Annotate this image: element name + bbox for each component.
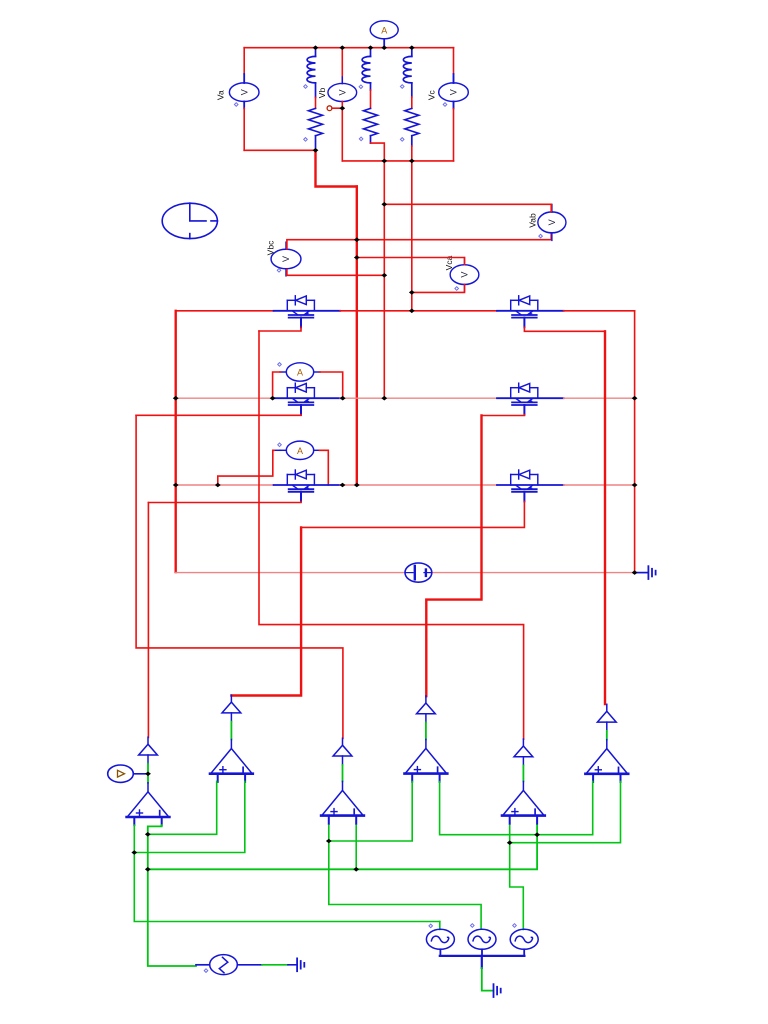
wire Vb bottom: [341, 102, 343, 161]
polarity mark L1: [304, 85, 308, 89]
ammeter A2: [280, 363, 320, 381]
wire A3 left drop: [274, 449, 281, 451]
junction dots row3: [173, 483, 179, 488]
wire gate c6 (Q2 gate to T6) thick: [604, 331, 606, 704]
polarity mark Va: [234, 103, 238, 107]
junction dots V2: [381, 202, 387, 207]
inductor L2: [362, 48, 371, 90]
wire L1-R1: [315, 97, 317, 108]
ground G1: [648, 566, 655, 579]
wire carrier net: op1 right jog: [148, 825, 196, 966]
wire T6-op6: [606, 731, 608, 740]
wire T2-op2: [230, 722, 232, 740]
svg-text:A: A: [297, 368, 303, 378]
resistor R3: [405, 108, 419, 135]
svg-text:V: V: [460, 272, 470, 278]
wire row3 right: [564, 484, 635, 486]
polarity mark A3: [278, 443, 282, 447]
wire sine1 drop: [439, 922, 441, 930]
junction dot Vb tap: [339, 106, 345, 111]
wire node tap: [332, 107, 342, 109]
wire R1 bottom: [315, 136, 317, 151]
junction dot b1 bottom: [313, 148, 319, 153]
wire row2 left feeder: [176, 397, 273, 399]
transistor Q6 (row3 right IGBT): [497, 470, 564, 502]
ground G3: [297, 958, 304, 971]
wire sine bottom bus: [440, 949, 525, 968]
source Idc (DC link battery source): [405, 563, 432, 582]
inductor L3: [403, 48, 412, 97]
polarity mark A2: [278, 363, 282, 367]
buffer T1: [139, 737, 158, 764]
wire gate c3 (Q3 gate to T3): [136, 415, 343, 738]
wire Q3 gate jog: [136, 414, 301, 417]
wire V3 vertical: [411, 161, 413, 311]
wire neutral bus y161: [342, 160, 453, 162]
svg-text:Vab: Vab: [528, 213, 538, 228]
wire A2 right drop: [320, 372, 343, 398]
wire Va top: [243, 48, 245, 74]
wire phase-c feeder (b1 bottom to V1): [316, 150, 357, 186]
svg-text:Vb: Vb: [317, 88, 327, 99]
polarity mark R1: [304, 138, 308, 142]
junction dots V1: [354, 237, 360, 242]
buffer T4: [417, 696, 436, 723]
wire Q4 gate jog: [482, 414, 525, 417]
polarity mark L2: [359, 85, 363, 89]
junction dot row1 phase: [409, 309, 415, 314]
voltmeter Vca: [450, 258, 479, 292]
op-amp U5: [502, 781, 545, 823]
wire Vtri left lead: [196, 964, 210, 966]
polarity mark Vtri: [204, 969, 208, 973]
wire T5-op5: [522, 766, 524, 782]
source Vsin1: [426, 929, 454, 949]
wire gate c1 (Q5 gate to T1): [147, 503, 149, 738]
svg-text:V: V: [239, 89, 249, 95]
voltmeter Va: [229, 76, 259, 108]
wire Q5 gate jog: [148, 502, 301, 503]
voltmeter Vb: [328, 77, 357, 108]
junction dot probe: [145, 772, 151, 777]
wire V4 vertical (DC- to ground): [634, 311, 636, 573]
transistor Q3 (row2 left IGBT): [274, 383, 341, 415]
wire sine1 net: op1 left input down and across: [134, 825, 440, 921]
wire ammeter stub: [383, 39, 385, 48]
wire gate c4 (Q4 gate to T4) thick: [426, 416, 481, 697]
source Vsin3: [510, 929, 538, 949]
wire Vab top line: [384, 204, 551, 211]
transistor Q4 (row2 right IGBT): [497, 383, 564, 415]
wire gate c5 (Q1 gate to T5): [259, 331, 524, 739]
wire DC+ rail x176: [174, 311, 176, 572]
polarity mark Vc: [443, 103, 447, 107]
junction dots green nets: [131, 850, 137, 855]
junction dots top bus: [313, 45, 319, 50]
svg-text:Va: Va: [216, 90, 226, 100]
wire top DC bus: [244, 47, 453, 49]
wire R3 bottom: [411, 136, 413, 146]
wire Vca bottom line: [412, 285, 465, 293]
wire row2 right: [564, 397, 635, 399]
svg-text:V: V: [547, 219, 557, 225]
wire row2 mid: [340, 397, 497, 399]
wire T3-op3: [342, 765, 344, 781]
voltmeter Vab: [538, 204, 566, 240]
resistor R2: [364, 108, 378, 135]
wire sine1 net: branch to op2 right input: [134, 781, 245, 852]
op-amp U4: [405, 739, 448, 781]
wire V1 thick vertical: [356, 187, 358, 486]
wire row1 right to V4: [564, 310, 635, 312]
inductor L1: [307, 48, 316, 98]
wire gate c2 (Q6 gate to T2) thick: [231, 527, 301, 695]
svg-text:Vbc: Vbc: [266, 240, 276, 255]
wire Q2 gate jog: [524, 327, 605, 331]
svg-text:A: A: [297, 446, 303, 456]
wire Vbc bottom line: [287, 270, 384, 276]
wire ground lead: [635, 572, 648, 574]
ammeter A1 (top DC ammeter): [370, 21, 398, 39]
wire A3 right drop: [320, 450, 329, 485]
wire to ground G3: [262, 964, 288, 966]
wire R2 bottom jog: [370, 136, 372, 143]
polarity mark Vsin1: [429, 924, 433, 928]
wire L3-R3: [411, 97, 413, 108]
svg-text:A: A: [381, 25, 387, 35]
voltmeter Vbc: [271, 242, 301, 276]
wire Va bottom: [243, 102, 245, 109]
node circle (phase b tap): [327, 106, 332, 111]
wire L2-R2: [370, 90, 372, 108]
op-amp U1: [127, 783, 170, 825]
voltmeter Vc: [439, 76, 469, 108]
wire Vbc top line to Vab bottom: [287, 233, 551, 249]
probe Vp: [108, 765, 148, 782]
wire DC link line y572: [176, 572, 405, 574]
wire carrier branch op3 right: [355, 825, 357, 869]
wire T1-op1: [147, 764, 149, 783]
wire sine3 net: op5 left / op6 right: [510, 825, 524, 929]
op-amp U2: [210, 740, 253, 782]
wire carrier branch to op2 left input: [148, 781, 217, 834]
polarity mark Vbc: [277, 269, 281, 273]
svg-text:V: V: [281, 256, 291, 262]
polarity mark R3: [400, 138, 404, 142]
resistor R1: [309, 108, 323, 135]
transistor Q1 (row1 left IGBT): [274, 296, 341, 328]
wire Vb top: [341, 48, 343, 84]
ground G2: [494, 984, 501, 997]
wire row3 left feeder: [176, 484, 274, 486]
polarity mark L3: [400, 85, 404, 89]
clock element: [162, 203, 217, 238]
source Vtri (carrier): [210, 955, 238, 975]
junction dots row2: [173, 396, 179, 401]
buffer T3: [333, 738, 352, 765]
wire row1 mid (phase leg a): [340, 310, 497, 312]
wire V2 vertical: [383, 161, 385, 398]
junction dot ground node: [632, 570, 638, 575]
polarity mark R2: [359, 137, 363, 141]
polarity mark Vca: [455, 287, 459, 291]
svg-text:V: V: [448, 89, 458, 95]
wire sine2 net: op3 left / op4 left: [329, 825, 481, 928]
wire Vc bottom: [453, 102, 455, 109]
svg-text:V: V: [338, 89, 348, 95]
buffer T5: [514, 739, 533, 766]
svg-text:Vc: Vc: [427, 89, 437, 100]
wire Q6 gate drop: [301, 502, 524, 528]
wire row1 left feeder: [176, 310, 274, 312]
junction dots neutral bus: [381, 159, 387, 164]
wire row3 mid: [340, 484, 497, 486]
transistor Q5 (row3 left IGBT): [274, 470, 341, 502]
wire Q1 gate jog: [259, 327, 301, 331]
polarity mark Vsin2: [471, 924, 475, 928]
source Vsin2: [468, 929, 496, 949]
buffer T6: [597, 704, 616, 731]
wire Vca top line: [357, 258, 465, 265]
wire carrier branch y835 op4 right / op6 left: [440, 781, 593, 834]
wire carrier bus y869: [148, 825, 537, 869]
junction dot V3: [409, 290, 415, 295]
wire Vc top: [453, 48, 455, 74]
polarity mark Vsin3: [513, 924, 517, 928]
op-amp U3: [321, 781, 364, 823]
ammeter A3: [280, 441, 320, 459]
wire A2 left drop: [273, 372, 281, 398]
buffer T2: [222, 695, 241, 722]
wire T4-op4: [425, 723, 427, 740]
polarity mark Vab: [539, 234, 543, 238]
wire to ground G2: [482, 968, 493, 991]
wire bottom bus left: [244, 149, 315, 151]
op-amp U6: [585, 740, 628, 782]
transistor Q2 (row1 right IGBT): [497, 296, 564, 328]
wire Vtri right lead: [238, 964, 263, 966]
